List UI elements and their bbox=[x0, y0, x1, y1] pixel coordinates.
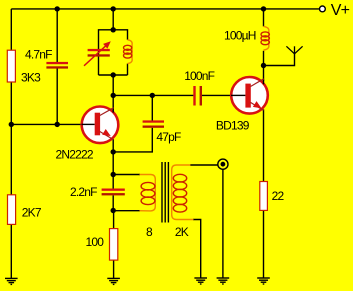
capacitor 100nF plates bbox=[193, 86, 202, 106]
wire 47pF upper bbox=[151, 95, 153, 120]
capacitor 47pF plates bbox=[143, 120, 164, 127]
ground 22R bbox=[257, 278, 270, 284]
ground 100R bbox=[107, 278, 120, 284]
wire tank box top bbox=[99, 30, 128, 75]
resistor 2K7 bbox=[8, 195, 16, 225]
wire antenna node to BD139 collector bbox=[263, 66, 265, 81]
wire secondary bottom to ground bbox=[193, 220, 201, 278]
wire left column bbox=[10, 9, 12, 51]
svg-text:100µH: 100µH bbox=[224, 29, 256, 43]
wire top rail bbox=[11, 8, 319, 10]
wire collector into 2N2222 bbox=[112, 95, 114, 110]
wire 22 to ground bbox=[263, 210, 265, 278]
wire 47pF lower bbox=[113, 128, 152, 152]
svg-text:2.2nF: 2.2nF bbox=[70, 185, 97, 199]
wire tank feed bbox=[112, 9, 114, 30]
variable capacitor arrow bbox=[84, 41, 111, 66]
wire left column bottom bbox=[10, 224, 12, 278]
wire 100R to ground bbox=[113, 260, 115, 278]
transistor Q1 2N2222 bbox=[82, 107, 119, 144]
svg-text:2K: 2K bbox=[175, 225, 189, 239]
wire tank to collector node bbox=[112, 75, 114, 95]
svg-text:47pF: 47pF bbox=[156, 130, 181, 144]
ground jack bbox=[217, 278, 230, 284]
node dot collector node bbox=[111, 93, 116, 98]
node dot tank bottom bbox=[111, 72, 116, 77]
node dot rail-100uH bbox=[261, 6, 266, 11]
ground left (2K7) bbox=[5, 278, 18, 284]
transformer core bbox=[162, 162, 168, 223]
svg-text:2K7: 2K7 bbox=[22, 205, 42, 219]
wire transformer primary top bbox=[113, 174, 140, 176]
transformer secondary coil (2K) bbox=[172, 165, 194, 220]
inductor 100uH bbox=[261, 26, 269, 50]
svg-text:100nF: 100nF bbox=[184, 69, 214, 83]
wire secondary top to jack bbox=[190, 164, 218, 166]
node dot emitter-transformer top bbox=[111, 172, 116, 177]
wire 4.7nF branch lower bbox=[56, 69, 58, 125]
node dot emitter-47pF bbox=[111, 149, 116, 154]
svg-text:3K3: 3K3 bbox=[21, 70, 41, 84]
transistor Q2 BD139 bbox=[231, 77, 268, 114]
node dot base-4.7nF bbox=[55, 122, 60, 127]
resistor 22 bbox=[260, 182, 268, 211]
wire collector node horizontal bbox=[113, 94, 193, 96]
wire transformer primary bottom bbox=[113, 210, 140, 212]
node dot 47pF top bbox=[150, 93, 155, 98]
node dot transformer bottom-100R bbox=[111, 208, 116, 213]
output jack connector bbox=[218, 159, 228, 169]
inductor tank coil bbox=[124, 40, 133, 64]
resistor 3K3 bbox=[7, 50, 15, 82]
wire 100R feed bbox=[113, 211, 115, 229]
wire BD139 emitter down bbox=[263, 109, 265, 181]
wire base node horizontal bbox=[11, 123, 81, 125]
svg-text:22: 22 bbox=[272, 189, 285, 203]
node dot left rail base bbox=[9, 122, 14, 127]
svg-text:BD139: BD139 bbox=[216, 119, 250, 133]
svg-text:2N2222: 2N2222 bbox=[56, 147, 94, 161]
node dot rail-tank bbox=[111, 6, 116, 11]
ground secondary bbox=[194, 278, 207, 284]
node dot rail-4.7nF bbox=[55, 6, 60, 11]
wire 2.2nF node lower bbox=[112, 195, 114, 210]
resistor 100 bbox=[110, 229, 118, 261]
wire 100uH feed bbox=[263, 9, 265, 27]
transformer primary coil (8 ohm) bbox=[140, 175, 156, 211]
capacitor 2.2nF plates bbox=[102, 189, 125, 196]
antenna bbox=[286, 46, 302, 54]
svg-text:4.7nF: 4.7nF bbox=[25, 48, 52, 62]
variable capacitor trimmer plates bbox=[88, 49, 110, 57]
node dot antenna-collector bbox=[261, 63, 266, 68]
wire 4.7nF branch upper bbox=[56, 9, 58, 62]
wire jack to ground bbox=[222, 169, 224, 277]
wire tank right branch lower bbox=[127, 64, 129, 75]
wire left column mid bbox=[10, 82, 12, 195]
capacitor C 4.7nF plates bbox=[46, 62, 68, 69]
wire tank box bottom bbox=[99, 74, 128, 76]
wire 2.2nF node upper bbox=[112, 175, 114, 189]
node dot tank top bbox=[111, 27, 116, 32]
terminal V+ bbox=[320, 6, 326, 12]
wire antenna horizontal bbox=[264, 54, 295, 66]
svg-text:100: 100 bbox=[86, 235, 105, 249]
wire 2N2222 emitter down bbox=[112, 139, 114, 174]
svg-text:V+: V+ bbox=[331, 2, 350, 19]
wire 100uH to antenna node bbox=[263, 51, 265, 66]
wire 100nF to BD139 base bbox=[202, 94, 230, 96]
